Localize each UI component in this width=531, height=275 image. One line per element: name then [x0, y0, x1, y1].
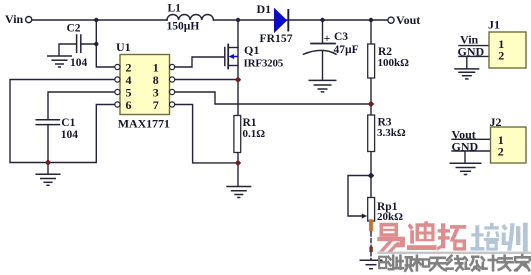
svg-text:L1: L1 — [168, 3, 182, 15]
svg-text:47µF: 47µF — [334, 44, 359, 56]
svg-text:C2: C2 — [67, 23, 81, 35]
svg-text:GND: GND — [452, 139, 479, 153]
svg-text:Vout: Vout — [396, 13, 420, 27]
svg-text:150µH: 150µH — [167, 21, 200, 33]
svg-text:20kΩ: 20kΩ — [377, 211, 403, 223]
svg-text:Vin: Vin — [5, 12, 24, 26]
svg-text:2: 2 — [498, 145, 504, 159]
svg-text:6: 6 — [126, 98, 132, 112]
svg-text:+: + — [324, 33, 331, 45]
svg-text:104: 104 — [70, 57, 88, 69]
svg-text:U1: U1 — [116, 40, 131, 54]
svg-text:MAX1771: MAX1771 — [118, 116, 170, 130]
svg-text:100kΩ: 100kΩ — [378, 57, 410, 69]
svg-text:104: 104 — [61, 129, 79, 141]
svg-text:J2: J2 — [490, 115, 502, 129]
svg-text:IRF3205: IRF3205 — [244, 57, 284, 69]
svg-text:FR157: FR157 — [260, 33, 293, 45]
svg-text:2: 2 — [498, 49, 504, 63]
svg-text:C1: C1 — [61, 117, 75, 129]
svg-text:D1: D1 — [257, 2, 272, 16]
svg-text:Q1: Q1 — [244, 43, 259, 57]
svg-text:0.1Ω: 0.1Ω — [243, 128, 266, 140]
svg-text:7: 7 — [153, 98, 159, 112]
svg-text:GND: GND — [458, 44, 485, 58]
svg-text:C3: C3 — [334, 31, 348, 43]
svg-text:3.3kΩ: 3.3kΩ — [377, 127, 406, 139]
svg-text:J1: J1 — [488, 17, 500, 31]
